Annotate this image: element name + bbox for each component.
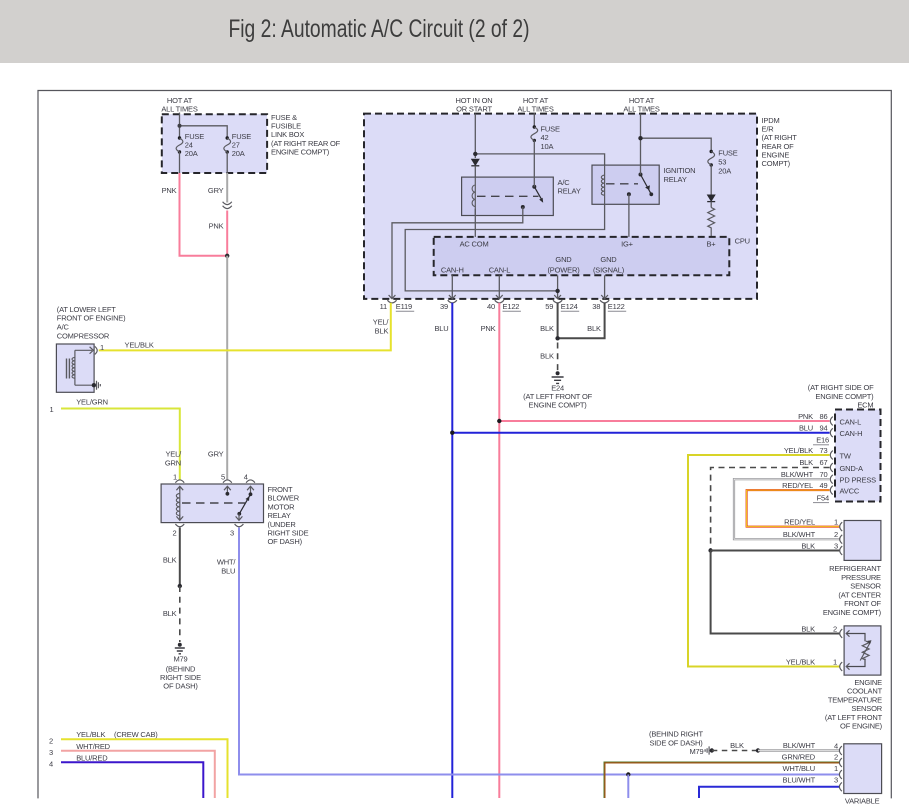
wire BLK/WHT PD PRESS to ECM 70 [734,470,840,539]
svg-text:PNK: PNK [209,222,224,231]
svg-text:(CREW CAB): (CREW CAB) [114,730,158,739]
pin 40 E122 [487,295,521,311]
svg-text:CAN-H: CAN-H [441,266,464,275]
svg-text:FRONT OF ENGINE): FRONT OF ENGINE) [57,314,126,323]
wire BLK from blower relay pin 2 [163,528,182,589]
svg-text:A/C: A/C [57,323,70,332]
ground M79 [160,643,201,691]
resistor (B+ line) [708,208,715,238]
svg-text:YEL/GRN: YEL/GRN [76,398,108,407]
svg-text:PRESSURE: PRESSURE [841,573,881,582]
svg-text:(AT LEFT FRONT: (AT LEFT FRONT [825,713,883,722]
svg-text:OR START: OR START [456,105,492,114]
svg-text:OF ENGINE): OF ENGINE) [840,722,883,731]
svg-text:PNK: PNK [798,412,813,421]
svg-text:VARIABLE: VARIABLE [845,797,880,806]
ignition relay armature link (dashed) [606,183,638,185]
compressor clutch plates [67,359,70,379]
wire PNK from fuse 24 [162,173,228,256]
label RED/YEL 1 [784,518,815,527]
svg-text:73: 73 [820,446,828,455]
ground M79 (behind dash, right) [689,746,714,755]
svg-text:BLK/WHT: BLK/WHT [783,530,816,539]
A/C relay U1 [462,177,581,215]
wire hot-in-on feed to A/C relay coil and ignition relay coil [473,114,605,177]
CPU box [434,237,750,276]
svg-text:WHT/BLU: WHT/BLU [783,764,816,773]
svg-text:ENGINE COMPT): ENGINE COMPT) [815,392,874,401]
svg-text:RELAY: RELAY [268,511,291,520]
svg-text:AC COM: AC COM [460,239,489,248]
svg-text:BLU: BLU [799,424,813,433]
svg-text:YEL/BLK: YEL/BLK [786,657,815,666]
svg-text:MOTOR: MOTOR [268,502,296,511]
svg-text:YEL/BLK: YEL/BLK [125,341,154,350]
svg-text:(UNDER: (UNDER [268,520,297,529]
svg-text:BLK: BLK [540,352,554,361]
node HOT AT ALL TIMES (ignition) [623,96,659,114]
ECM pin GND-A (67) [830,463,833,472]
ignition relay coil [604,165,606,204]
svg-text:GRY: GRY [208,186,224,195]
svg-text:59: 59 [545,302,553,311]
svg-text:RED/YEL: RED/YEL [784,518,815,527]
wire ignition relay coil to GND (POWER) [405,204,604,291]
svg-text:E24: E24 [551,384,564,393]
svg-text:BLU: BLU [434,324,448,333]
svg-text:(SIGNAL): (SIGNAL) [593,265,625,274]
pin 39 [440,295,457,311]
variable blower pin 1 [834,764,842,779]
svg-text:CPU: CPU [735,237,750,246]
svg-text:67: 67 [820,458,828,467]
junction PNK/GRY [225,254,229,258]
svg-text:FRONT: FRONT [268,485,294,494]
svg-text:11: 11 [380,302,387,311]
blower relay pin 4 [244,473,255,497]
coolant sensor pin 2 [801,624,842,638]
svg-text:BLK: BLK [799,458,813,467]
svg-text:2: 2 [833,624,837,633]
svg-text:BLK: BLK [163,556,177,565]
pin 59 E124 [545,295,579,311]
svg-text:E124: E124 [561,302,578,311]
wire 1 YEL/GRN from left [50,398,180,480]
svg-text:GND-A: GND-A [840,464,863,473]
svg-text:ENGINE COMPT): ENGINE COMPT) [823,608,882,617]
compressor clutch coil [74,350,76,385]
svg-text:WHT/: WHT/ [217,558,237,567]
svg-text:1: 1 [834,764,838,773]
ignition relay U2 [592,165,695,204]
svg-text:BLK: BLK [801,542,815,551]
wire BLK to refrigerant sensor pin 3 and coolant sensor pin 2 [711,551,840,634]
svg-text:YEL/BLK: YEL/BLK [784,446,813,455]
node HOT AT ALL TIMES (fuse box) [161,96,197,114]
svg-text:FUSE: FUSE [718,149,737,158]
svg-text:CAN-H: CAN-H [840,429,863,438]
svg-text:38: 38 [592,302,600,311]
inline connector on gray wire [223,202,232,209]
front blower motor relay [161,484,309,546]
label BLK/WHT 2 [783,530,816,539]
svg-text:70: 70 [820,470,828,479]
svg-text:IG+: IG+ [621,239,634,248]
wire BLK/WHT to variable blower pin 4 [758,741,840,750]
svg-text:BLK: BLK [587,324,601,333]
label BLK 3 [801,542,815,551]
variable blower pin 2 [834,753,842,767]
svg-text:ECM: ECM [857,401,873,410]
svg-text:(AT CENTER: (AT CENTER [838,590,881,599]
ECM pin CAN-L (86) [830,417,833,426]
svg-text:4: 4 [49,760,53,769]
ECM pin TW (73) [830,451,833,460]
svg-text:COOLANT: COOLANT [847,687,883,696]
wire RED/YEL AVCC to ECM 49 [747,481,840,527]
wire BLK pin38 down to junction [555,303,604,341]
wire A/C relay output to pin 11 [392,207,523,299]
svg-text:1: 1 [173,473,177,482]
svg-text:BLK: BLK [540,324,554,333]
svg-text:ENGINE: ENGINE [854,678,882,687]
wire BLK dashed to M79 [163,586,180,642]
ground E24 [523,371,592,409]
fuse 27 20A [180,132,252,173]
blower relay pin 1 [173,473,184,491]
wire WHT/BLU from blower relay pin 3 [217,528,839,799]
ECM pin AVCC (49) [830,486,833,495]
svg-text:COMPT): COMPT) [762,159,791,168]
wire PNK below connector [209,211,228,256]
wire BLU CAN-H to ECM 94 [450,424,829,435]
blower relay pin 2 [173,515,185,538]
refrigerant sensor pin 1 [834,518,842,531]
wire A/C relay coil to AC COM [474,209,476,237]
svg-text:REFRIGERANT: REFRIGERANT [829,564,881,573]
svg-text:ENGINE COMPT): ENGINE COMPT) [271,147,330,156]
svg-text:BLK: BLK [375,326,389,335]
svg-text:1: 1 [100,343,104,352]
svg-text:1: 1 [834,518,838,527]
svg-text:E119: E119 [396,302,412,311]
svg-text:2: 2 [834,530,838,539]
svg-text:20A: 20A [185,149,198,158]
svg-text:GRN/RED: GRN/RED [782,753,816,762]
wire fuse 53 to diode [710,165,712,195]
svg-text:RELAY: RELAY [558,187,581,196]
svg-text:WHT/RED: WHT/RED [76,742,110,751]
svg-text:BLK/WHT: BLK/WHT [783,741,816,750]
fuse 24 20A [176,132,204,158]
diode (B+ line) [707,195,715,208]
svg-text:BLU/WHT: BLU/WHT [783,775,816,784]
wire ignition relay output to IG+ [628,194,630,237]
wire PNK CAN-L to ECM 86 [497,412,829,423]
svg-text:GND: GND [555,255,572,264]
title bar [0,0,909,63]
refrigerant sensor pin 2 [834,530,842,543]
svg-text:2: 2 [173,529,177,538]
svg-text:E16: E16 [816,436,829,445]
svg-text:20A: 20A [232,149,245,158]
pin 11 E119 [380,295,415,311]
wire CAN-L to pin 40 [498,275,500,298]
svg-text:(AT RIGHT SIDE OF: (AT RIGHT SIDE OF [808,383,874,392]
wire 3 WHT/RED [49,742,215,798]
svg-text:(BEHIND RIGHT: (BEHIND RIGHT [649,730,704,739]
text BEHIND RIGHT SIDE OF DASH [649,730,704,748]
svg-text:TW: TW [840,451,852,460]
svg-text:(POWER): (POWER) [547,265,580,274]
node HOT IN ON OR START [456,96,493,114]
ECM pin CAN-H (94) [830,428,833,437]
svg-text:BLK/WHT: BLK/WHT [781,470,814,479]
svg-text:BLK: BLK [163,609,177,618]
svg-text:3: 3 [230,529,234,538]
svg-text:SENSOR: SENSOR [850,582,881,591]
wire YEL/BLK TW to ECM 73 [688,446,840,667]
wire BLU/WHT to variable blower pin 3 [699,775,840,798]
svg-text:5: 5 [221,473,225,482]
svg-text:B+: B+ [706,239,716,248]
wire GND POWER to pin 59 [555,275,559,298]
blower relay switch arm [239,494,250,514]
wire GND SIGNAL to pin 38 [604,275,606,298]
svg-text:YEL/BLK: YEL/BLK [76,730,105,739]
svg-text:(AT LOWER LEFT: (AT LOWER LEFT [57,305,116,314]
refrigerant sensor pin 3 [834,542,842,555]
svg-text:PNK: PNK [481,324,496,333]
svg-text:GND: GND [600,255,617,264]
A/C compressor [56,305,126,392]
ECM pin PD PRESS (70) [830,475,833,484]
svg-text:F54: F54 [817,493,829,502]
variable blower control box [844,744,882,806]
wire BLK pin59 down [540,303,557,339]
A/C relay coil [474,177,476,215]
svg-text:Fig 2: Automatic A/C Circuit (: Fig 2: Automatic A/C Circuit (2 of 2) [229,15,530,43]
svg-text:42: 42 [541,133,549,142]
svg-text:ENGINE COMPT): ENGINE COMPT) [529,401,588,410]
svg-text:SENSOR: SENSOR [851,704,882,713]
svg-text:PNK: PNK [162,186,177,195]
wire PNK pin40 down [481,303,500,798]
svg-text:FUSE: FUSE [541,124,560,133]
fuse 42 10A [531,124,560,151]
svg-text:BLU/RED: BLU/RED [76,753,108,762]
svg-text:86: 86 [820,412,828,421]
wire CAN-H to pin 39 [451,275,453,298]
svg-text:AVCC: AVCC [840,486,860,495]
wire fuse 42 to A/C relay switch [533,140,535,186]
svg-text:39: 39 [440,302,448,311]
svg-text:IGNITION: IGNITION [664,166,696,175]
wire BLK dashed from M79 [712,741,760,753]
svg-text:94: 94 [820,424,828,433]
wire GRY from fuse 27 [208,173,227,203]
svg-text:BLOWER: BLOWER [268,494,300,503]
A/C relay switch [521,185,543,209]
svg-text:E122: E122 [608,302,625,311]
IPDM E/R box [364,114,797,299]
svg-text:4: 4 [244,473,248,482]
blower relay pin 5 [221,473,232,496]
svg-text:49: 49 [820,481,828,490]
refrigerant pressure sensor [823,521,882,618]
connector F54 label [813,493,829,502]
svg-text:BLU: BLU [221,567,235,576]
blower relay pin 3 [230,514,243,538]
diode D (A/C relay coil feed) [471,159,479,183]
wire GRY down to blower relay pin 5 [208,256,227,480]
svg-text:10A: 10A [541,142,554,151]
svg-text:40: 40 [487,302,495,311]
svg-text:3: 3 [49,748,53,757]
wire 2 YEL/BLK (CREW CAB) [49,730,228,798]
svg-text:ALL TIMES: ALL TIMES [161,105,197,114]
engine coolant temperature sensor [825,626,883,731]
variable blower pin 4 [834,741,842,755]
svg-text:M79: M79 [689,747,703,756]
variable blower pin 3 [834,775,842,791]
svg-text:PD PRESS: PD PRESS [840,476,877,485]
svg-text:2: 2 [834,753,838,762]
svg-text:ALL TIMES: ALL TIMES [623,105,659,114]
svg-text:20A: 20A [718,166,731,175]
wire 4 BLU/RED [49,753,203,798]
wire YEL/BLK pin11 to compressor [99,303,391,351]
svg-text:1: 1 [833,657,837,666]
wire BLK shield dashed GND-A to ECM 67 [708,458,829,553]
svg-text:ALL TIMES: ALL TIMES [517,105,553,114]
A/C relay armature link (dashed) [477,195,539,197]
compressor case ground [75,381,100,390]
svg-text:GRY: GRY [208,450,224,459]
svg-text:53: 53 [718,157,726,166]
label YEL/GRN near relay [165,450,182,468]
ECM box [808,383,881,502]
svg-text:FRONT OF: FRONT OF [844,599,881,608]
fuse &amp; fusible link box [162,113,341,173]
wire BLK dashed to E24 [540,343,557,371]
svg-text:1: 1 [50,405,54,414]
svg-text:YEL/: YEL/ [373,318,390,327]
ignition relay switch [627,173,653,197]
node HOT AT ALL TIMES (fuse 42) [517,96,553,114]
svg-text:TEMPERATURE: TEMPERATURE [828,695,882,704]
coolant sensor internal thermistor [846,630,871,669]
svg-text:OF DASH): OF DASH) [268,537,303,546]
svg-text:RELAY: RELAY [664,175,687,184]
svg-text:COMPRESSOR: COMPRESSOR [57,331,110,340]
svg-text:3: 3 [834,542,838,551]
blower relay armature link (dashed) [182,502,245,504]
compressor pin 1 wiring [75,343,104,355]
svg-text:BLK: BLK [730,741,744,750]
svg-text:E122: E122 [503,302,520,311]
svg-text:RIGHT SIDE: RIGHT SIDE [268,529,309,538]
wire fuse42 feed [533,113,535,128]
coolant sensor pin 1 [786,657,842,671]
svg-text:3: 3 [834,775,838,784]
svg-text:BLK: BLK [801,624,815,633]
svg-text:OF DASH): OF DASH) [163,682,198,691]
svg-text:A/C: A/C [558,178,571,187]
svg-text:GRN: GRN [165,458,181,467]
svg-text:RED/YEL: RED/YEL [782,481,813,490]
connector E16 label [813,436,829,445]
svg-text:4: 4 [834,741,838,750]
wire hot-at feed to ignition switch and fuse 53 [638,114,711,175]
wire: hot feed into fuse box [178,113,228,139]
svg-text:CAN-L: CAN-L [489,266,511,275]
wire BLU pin39 down [434,303,452,798]
blower relay coil [179,487,181,521]
fuse 53 20A [708,149,738,176]
svg-text:M79: M79 [173,655,187,664]
svg-text:2: 2 [49,737,53,746]
svg-text:YEL/: YEL/ [165,450,182,459]
pin 38 E122 [592,295,626,311]
wire GRN/RED to variable blower pin 2 [605,753,840,798]
svg-text:CAN-L: CAN-L [840,417,862,426]
